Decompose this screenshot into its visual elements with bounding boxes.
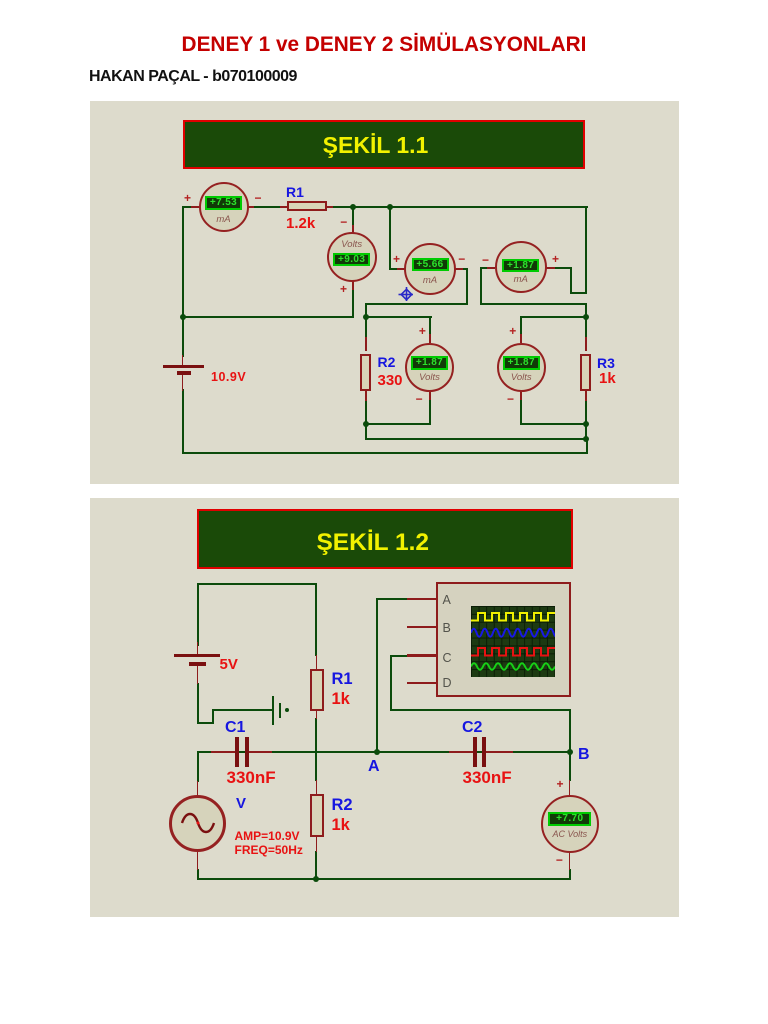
pin A3 right [546, 267, 555, 269]
pin scope B [407, 626, 436, 628]
ammeter A1 +7.53mA [199, 182, 249, 232]
waveform channel B (blue sine) [471, 629, 559, 637]
sign AC minus [556, 853, 563, 867]
sign A1 plus [184, 191, 191, 205]
junction battery top [180, 314, 186, 320]
junction V1 tap [350, 204, 356, 210]
wire sine top [197, 751, 199, 782]
wire battery bottom segment [182, 389, 184, 453]
pin A3 left [487, 267, 495, 269]
value R1 1.2k [286, 215, 315, 232]
scope channel B [443, 621, 451, 635]
wire node R3 rail [520, 316, 587, 318]
sign V1 minus [340, 215, 347, 229]
wire A2 plus stub [389, 268, 405, 270]
figure 1 title banner [183, 120, 585, 169]
wire left vertical [182, 206, 184, 317]
sign V1 plus [340, 282, 347, 296]
pin A2 right [455, 268, 463, 270]
oscilloscope waveforms [471, 606, 555, 677]
wire node R2 riser [365, 423, 367, 439]
wire bottom right riser [586, 438, 588, 453]
figure 2 panel background [90, 498, 679, 917]
junction A2 tap [387, 204, 393, 210]
resistor R1 body [287, 201, 327, 211]
page title [0, 33, 768, 57]
lead R2f2 bottom [316, 837, 318, 852]
voltmeter V3 +1.87V [405, 343, 454, 392]
label R2 [378, 354, 396, 370]
wire scope A vertical [376, 598, 378, 752]
wire R2 top [365, 316, 367, 340]
wire node R2 rail [365, 316, 432, 318]
wire A2 minus stub [455, 268, 468, 270]
scope channel C [443, 651, 452, 665]
wire A3 plus stub [555, 267, 572, 269]
battery B1 10.9V [182, 355, 184, 366]
resistor R3 body [580, 354, 591, 392]
junction R2 bottom [363, 421, 369, 427]
pin scope D [407, 682, 436, 684]
wire node B riser [569, 709, 571, 753]
pin R3 top [585, 337, 587, 351]
sine wave symbol [182, 814, 214, 832]
wire fig2 R2 bottom [315, 851, 317, 879]
pin V3 top [429, 334, 431, 343]
wire A3 plus across [570, 292, 587, 294]
wire fig2 to ground [212, 709, 273, 711]
node label B [578, 746, 590, 764]
lead R1f2 top [316, 655, 318, 670]
sine voltage source V [169, 795, 226, 852]
junction R2 bottom rail [313, 876, 319, 882]
wire bottom rail [182, 452, 588, 454]
label R3 [597, 355, 615, 371]
value battery 10.9V [211, 370, 246, 384]
wire A3 minus stub [480, 267, 490, 269]
origin marker crosshair [398, 286, 413, 301]
sign A3 minus [482, 253, 489, 267]
wire V3 bottom drop [429, 400, 431, 423]
wire A2 plus drop [389, 206, 391, 269]
value R2 330 [378, 372, 403, 389]
oscilloscope body [436, 582, 571, 697]
sign A3 plus [552, 252, 559, 266]
AC voltmeter +7.70 [541, 795, 599, 853]
wire fig2 top rail [197, 583, 317, 585]
pin R3 bottom [585, 391, 587, 401]
pin R2 top [365, 337, 367, 351]
pin A2 left [397, 268, 405, 270]
lead AC bottom [569, 851, 571, 870]
wire V4 bottom across [520, 423, 587, 425]
voltmeter V1 +9.03V [327, 232, 377, 282]
wire V4 bottom drop [520, 400, 522, 423]
wire V1 top stub [352, 206, 354, 233]
wire fig2 bottom rail [197, 878, 571, 880]
wire scope C horizontal stub [390, 655, 408, 657]
wire A3 minus down [480, 267, 482, 305]
sign V4 plus [509, 324, 516, 338]
lead sine top [197, 781, 199, 796]
wire battery top segment [182, 316, 184, 357]
node label A [368, 758, 380, 776]
battery B2 5V [174, 654, 220, 658]
wire R3 bottom [585, 400, 587, 424]
wire R2 bottom [365, 400, 367, 424]
wire fig2 R1R2 middle [315, 718, 317, 781]
wire right vertical [585, 206, 587, 294]
junction node A [374, 749, 380, 755]
junction node R2 [363, 314, 369, 320]
value C2 330nF [463, 768, 512, 788]
lead C2 left [449, 751, 474, 753]
resistor R2 (fig2) body [310, 794, 325, 837]
label R2 fig2 [332, 796, 353, 815]
wire V3 bottom across [365, 423, 431, 425]
pin V3 bottom [429, 391, 431, 400]
pin A1 left [191, 206, 199, 208]
ammeter A2 +5.66mA [404, 243, 456, 295]
wire fig2 R1 column top [315, 583, 317, 656]
wire V1 bottom stub [352, 281, 354, 317]
pin V4 bottom [520, 391, 522, 400]
wire fig2 mid rail [197, 751, 571, 753]
lead C1 left [211, 751, 236, 753]
sign A2 plus [393, 252, 400, 266]
voltmeter V4 +1.87V [497, 343, 546, 392]
wire battery plus rail [182, 316, 354, 318]
scope channel D [443, 676, 452, 690]
wire V3 plus drop [429, 316, 431, 343]
value battery 5V [220, 656, 238, 673]
sign A2 minus [458, 252, 465, 266]
ground bar dot [285, 708, 289, 712]
resistor R2 body [360, 354, 371, 392]
author line [89, 68, 297, 86]
lead C1 right [249, 751, 272, 753]
wire scope A horizontal [376, 598, 408, 600]
value R3 1k [599, 370, 616, 387]
lead C2 right [486, 751, 513, 753]
oscilloscope screen [471, 606, 555, 677]
resistor R1 (fig2) body [310, 669, 325, 711]
wire fig2 corner bottom [197, 722, 214, 724]
value FREQ [235, 843, 303, 857]
wire main top [182, 206, 588, 208]
lead AC top [569, 780, 571, 797]
pin R1 right [325, 206, 333, 208]
value C1 330nF [227, 768, 276, 788]
wire node R3 riser [585, 423, 587, 439]
wire sine bottom [197, 869, 199, 880]
wire AC meter top [569, 752, 571, 781]
junction R3 bottom [583, 421, 589, 427]
lead sine bottom [197, 851, 199, 870]
waveform channel A (yellow square) [471, 613, 555, 621]
label C1 [225, 719, 245, 737]
lead battery2 bottom [197, 666, 199, 684]
capacitor C1 [235, 737, 240, 767]
wire scope C vertical [390, 655, 392, 711]
wire fig2 left vertical [197, 583, 199, 646]
label C2 [462, 719, 482, 737]
junction lower mid rail [583, 436, 589, 442]
label R1 [286, 184, 304, 200]
pin V1 top [352, 225, 354, 233]
ground bar mid [279, 703, 282, 718]
scope channel A [443, 593, 451, 607]
ammeter A3 +1.87mA [495, 241, 547, 293]
wire V4 plus drop [520, 316, 522, 343]
waveform channel D (green sine) [471, 663, 555, 670]
capacitor C2 [473, 737, 478, 767]
sign AC plus [556, 777, 563, 791]
sign V4 minus [507, 392, 514, 406]
sign A1 minus [254, 191, 261, 205]
wire scope C across [390, 709, 571, 711]
sign V3 minus [416, 392, 423, 406]
wire AC meter bottom [569, 869, 571, 880]
value R2 fig2 1k [332, 816, 350, 835]
label R1 fig2 [332, 670, 353, 689]
sign V3 plus [419, 324, 426, 338]
lead battery2 top [197, 642, 199, 655]
wire A2 minus to node [365, 303, 367, 318]
wire A2 minus down [466, 268, 468, 305]
wire A3 minus across [480, 303, 586, 305]
value AMP [235, 829, 300, 843]
wire lower mid rail [365, 438, 588, 440]
figure 1 panel background [90, 101, 679, 484]
ground bar tall [272, 696, 275, 725]
wire R3 top [585, 316, 587, 340]
value R1 fig2 1k [332, 690, 350, 709]
wire fig2 battery to corner [197, 683, 199, 724]
pin A1 right [246, 206, 254, 208]
lead R1f2 bottom [316, 710, 318, 719]
label V [236, 795, 246, 812]
figure 2 title banner [197, 509, 573, 569]
pin R2 bottom [365, 391, 367, 401]
pin scope C [407, 654, 436, 656]
pin V1 bottom [352, 281, 354, 290]
wire A3 plus down [570, 267, 572, 294]
junction node R3 [583, 314, 589, 320]
lead R2f2 top [316, 780, 318, 795]
wire A3 minus to node [585, 303, 587, 318]
junction node B [567, 749, 573, 755]
pin scope A [407, 598, 436, 600]
wire fig2 corner riser [212, 710, 214, 724]
pin R1 left [280, 206, 288, 208]
wire A2 minus across [365, 303, 469, 305]
pin V4 top [520, 334, 522, 343]
waveform channel C (red square) [471, 648, 555, 656]
